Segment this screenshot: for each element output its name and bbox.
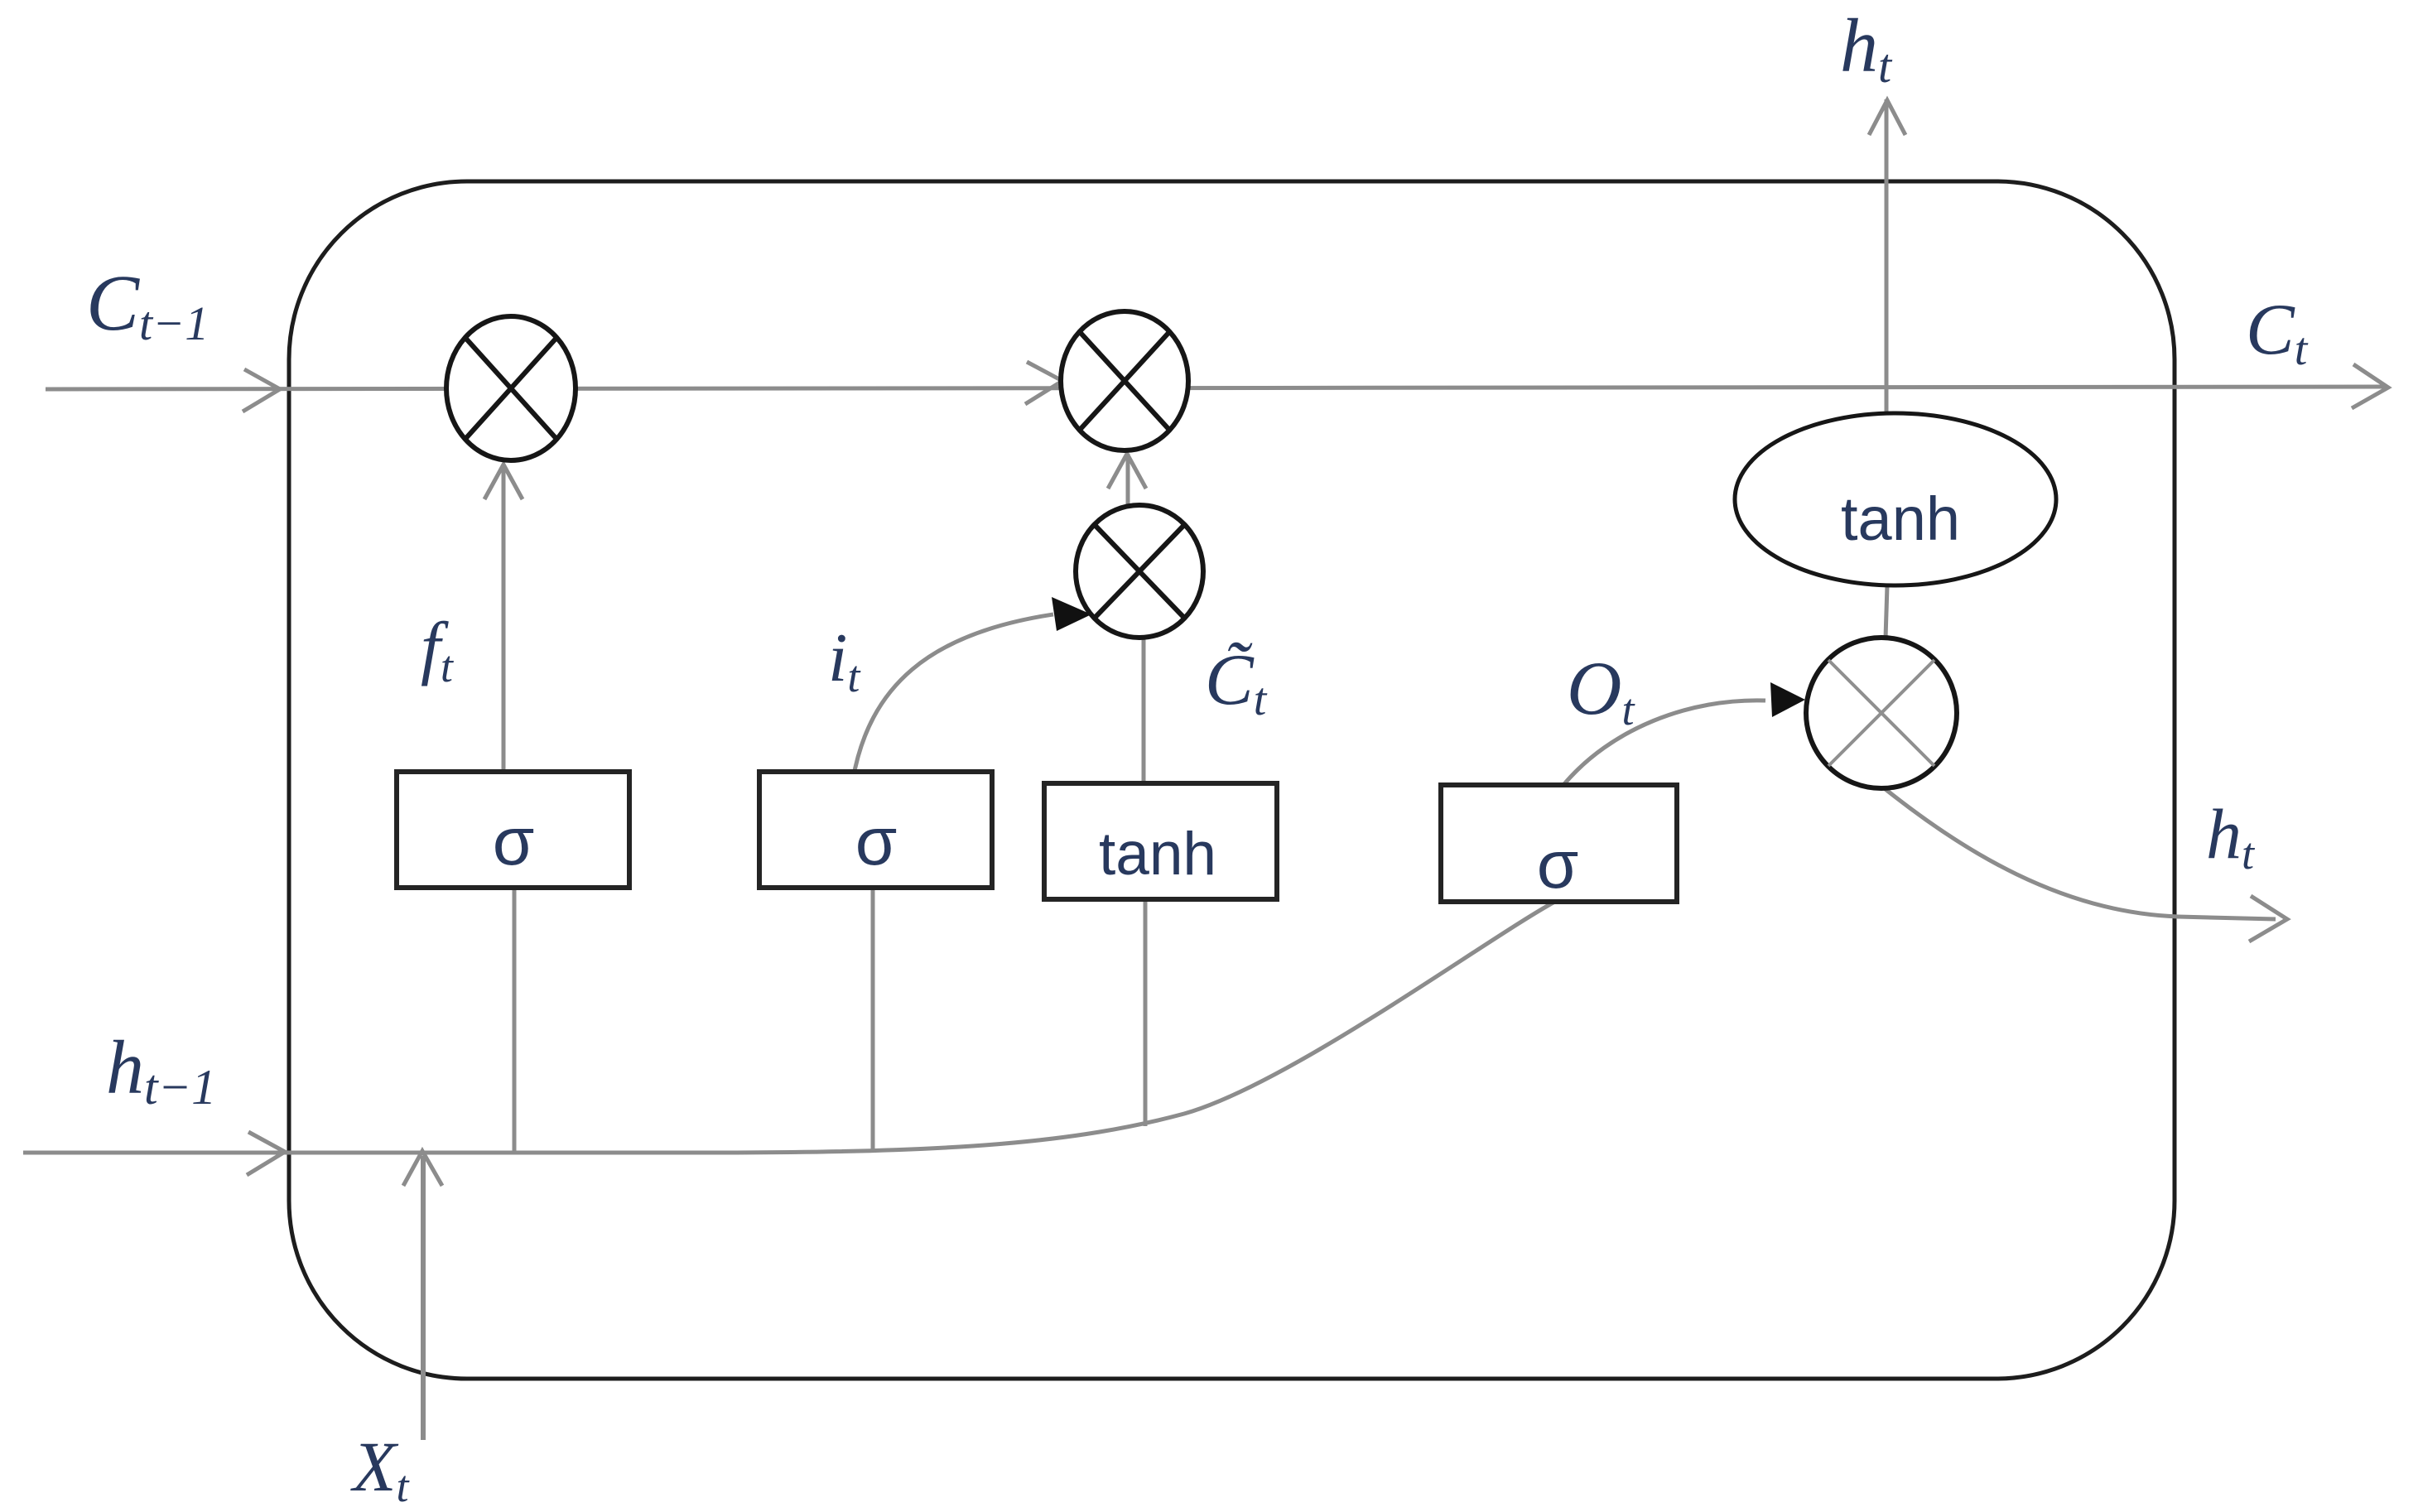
wire between multiply node X3 and X2	[1126, 454, 1130, 507]
multiply node X3 (input gate)	[1076, 505, 1203, 638]
arrowhead C input at left border	[243, 369, 280, 412]
wire vertical sigma gate 1 down to h line	[513, 888, 517, 1153]
arrowhead h input at left border	[247, 1132, 285, 1175]
arrowhead before multiply node X2	[1025, 362, 1062, 404]
wire X_t input from bottom	[421, 1156, 426, 1440]
wire O_t curve from sigma gate 4 to multiply node X4	[1563, 701, 1765, 785]
filled arrowhead i_t	[1052, 597, 1091, 631]
tanh ellipse U1	[1735, 413, 2056, 585]
arrowhead X_t	[403, 1151, 442, 1186]
wire tanh ellipse to multiply node X4	[1886, 585, 1887, 638]
arrowhead h_t right	[2249, 896, 2287, 941]
wire f_t vertical from sigma gate 1 to multiply node X1	[502, 464, 506, 772]
arrowhead up into X2	[1108, 454, 1146, 489]
multiply node X1 (forget)	[446, 316, 576, 460]
wire from tanh gate box 3 up to multiply node X3	[1142, 638, 1146, 784]
svg-text:σ: σ	[1537, 827, 1579, 903]
svg-text:σ: σ	[855, 804, 898, 879]
arrowhead h_t top	[1869, 100, 1905, 135]
tanh gate box 3 (candidate)	[1044, 783, 1277, 899]
sigma gate box 1 (forget gate)	[397, 772, 629, 888]
sigma gate box 4 (output gate)	[1441, 785, 1677, 903]
svg-text:σ: σ	[493, 804, 535, 879]
LSTM cell body rounded rectangle	[289, 181, 2175, 1379]
wire h_t vertical output top	[1885, 99, 1889, 418]
wire h line (h t-1 input, sweeping up to sigma gate 4)	[23, 899, 1559, 1153]
wire vertical tanh gate box 3 down to h sweep	[1144, 899, 1148, 1126]
filled arrowhead O_t	[1770, 682, 1805, 717]
multiply node X2 (cell update)	[1061, 311, 1188, 450]
wire vertical sigma gate 2 down to h line	[871, 888, 875, 1151]
wire h_t output curve right	[1882, 787, 2276, 919]
wire C line (cell state Ct-1 to Ct)	[46, 387, 2385, 389]
svg-text:tanh: tanh	[1099, 821, 1216, 888]
arrowhead C output at far right	[2352, 364, 2388, 408]
sigma gate box 2 (input gate)	[759, 772, 992, 888]
wire i_t curve from sigma gate 2 to multiply node X3	[853, 614, 1053, 779]
multiply node X4 (output)	[1806, 638, 1957, 788]
svg-text:tanh: tanh	[1841, 484, 1960, 553]
arrowhead f_t up	[484, 465, 523, 499]
